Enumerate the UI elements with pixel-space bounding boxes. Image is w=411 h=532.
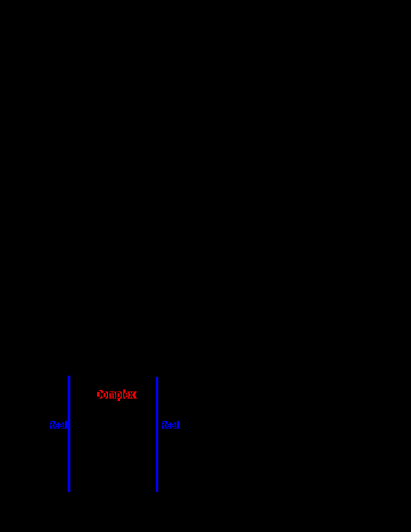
- label Real right (blue, with black doubled copy): [0, 0, 1, 1]
- label Real left (blue, with black doubled copy): [0, 0, 1, 1]
- label Complex (red, with black doubled copy): [0, 0, 1, 1]
